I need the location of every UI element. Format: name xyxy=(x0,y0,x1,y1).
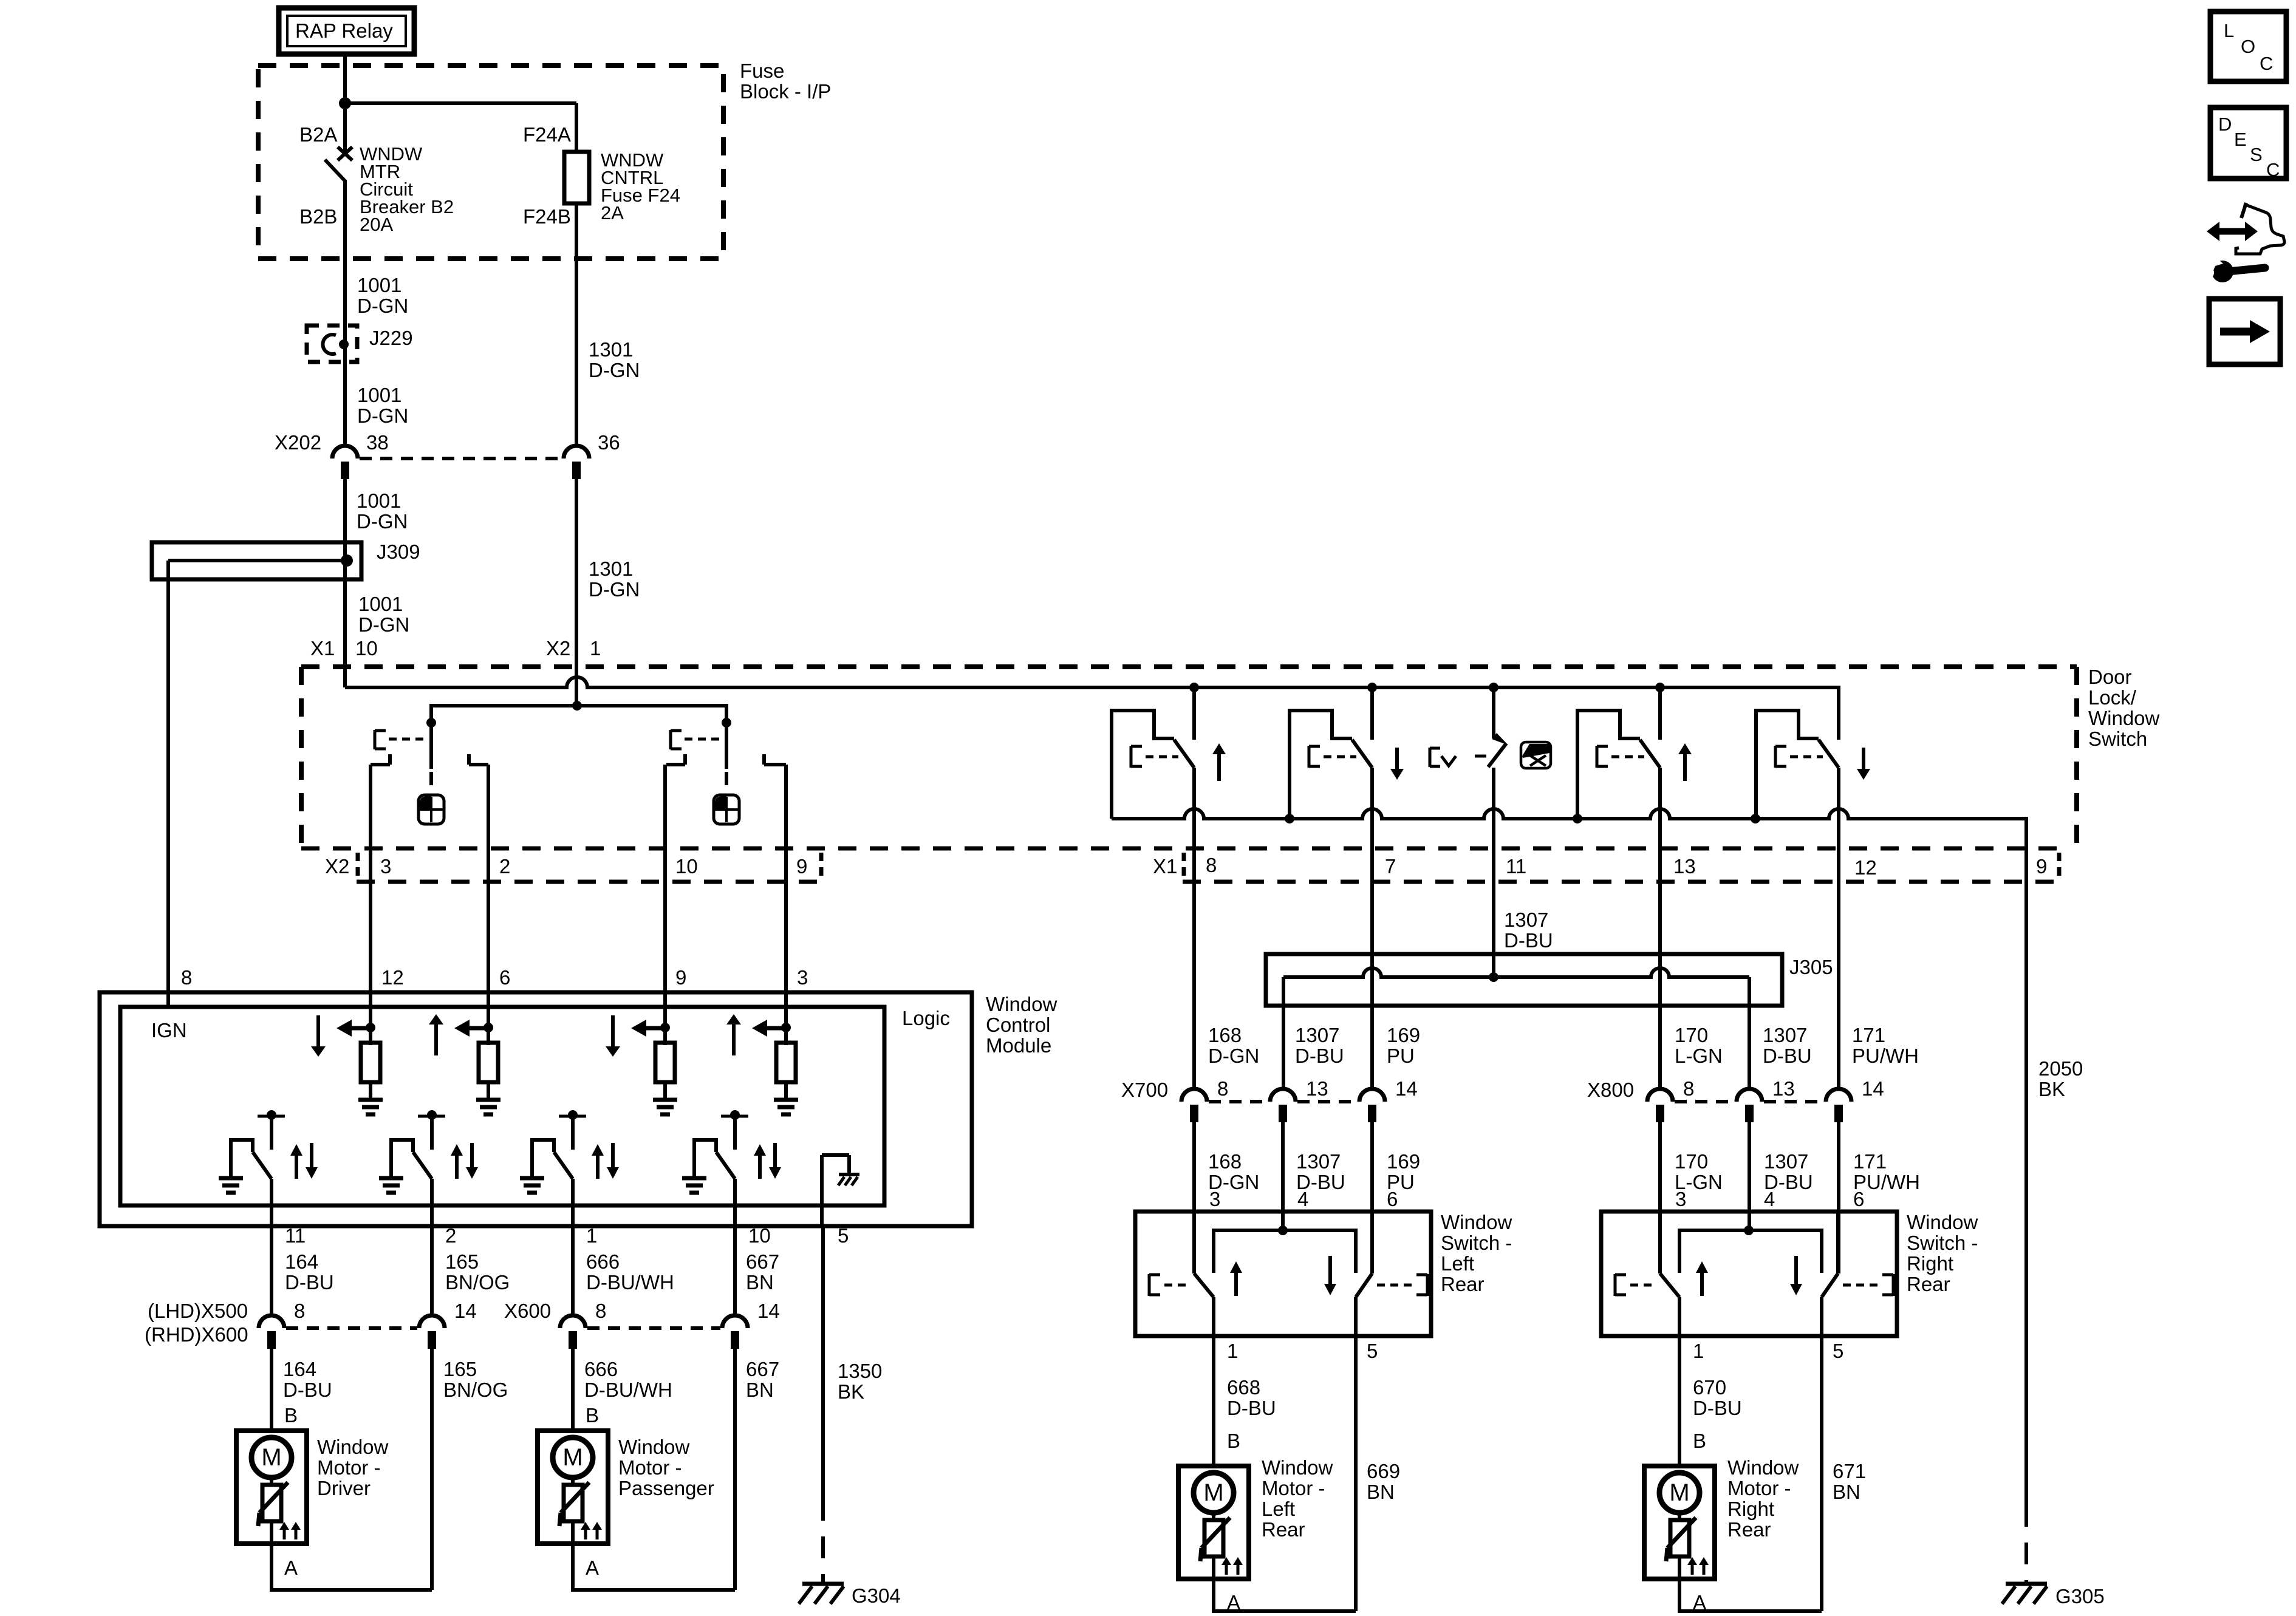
svg-text:1001: 1001 xyxy=(357,384,401,406)
svg-text:D-BU: D-BU xyxy=(1295,1045,1344,1067)
svg-text:14: 14 xyxy=(454,1300,477,1322)
svg-text:M: M xyxy=(562,1444,583,1471)
svg-text:C: C xyxy=(2260,53,2273,74)
svg-text:2A: 2A xyxy=(601,202,624,223)
svg-text:D-BU: D-BU xyxy=(1693,1397,1742,1419)
ground G304 label xyxy=(852,1584,901,1607)
svg-text:D-GN: D-GN xyxy=(358,613,409,636)
svg-text:X202: X202 xyxy=(275,431,321,454)
svg-text:Right: Right xyxy=(1907,1252,1953,1275)
svg-text:1: 1 xyxy=(1693,1340,1704,1362)
window motor right rear label xyxy=(1727,1456,1799,1541)
connector X1 strip labels xyxy=(1153,854,2047,879)
svg-text:Switch -: Switch - xyxy=(1907,1232,1978,1254)
module window channel 4 xyxy=(726,992,798,1114)
svg-text:Window: Window xyxy=(986,993,1057,1015)
svg-text:Motor -: Motor - xyxy=(1727,1477,1791,1499)
connector X700 labels xyxy=(1121,1077,1418,1101)
splice J229 node and hook xyxy=(323,335,349,354)
module output driver up/down xyxy=(219,1110,318,1226)
svg-text:164: 164 xyxy=(285,1250,318,1273)
window switch left front (up) in door lock switch xyxy=(1112,688,1226,849)
svg-text:D: D xyxy=(2218,114,2232,135)
driver passenger switch sub-bus xyxy=(426,701,731,728)
svg-text:9: 9 xyxy=(2036,855,2047,878)
DESC letters xyxy=(2218,114,2280,180)
module top pin labels xyxy=(181,966,808,989)
svg-text:170: 170 xyxy=(1675,1150,1708,1173)
svg-text:D-BU/WH: D-BU/WH xyxy=(586,1271,674,1294)
connector X800 labels xyxy=(1587,1077,1884,1101)
svg-text:Door: Door xyxy=(2088,666,2132,688)
svg-text:171: 171 xyxy=(1852,1024,1885,1046)
svg-text:6: 6 xyxy=(499,966,510,989)
svg-text:5: 5 xyxy=(838,1224,849,1247)
svg-text:G305: G305 xyxy=(2055,1585,2105,1607)
window switch right rear col (up) in door lock switch xyxy=(1577,688,1692,849)
svg-text:B: B xyxy=(1693,1430,1706,1452)
svg-text:Window: Window xyxy=(618,1436,690,1458)
wire 670 D-BU label xyxy=(1693,1376,1742,1452)
svg-text:D-BU: D-BU xyxy=(285,1271,334,1294)
svg-text:Rear: Rear xyxy=(1262,1518,1305,1541)
svg-text:J229: J229 xyxy=(369,327,413,349)
wire feed bus from X1-10 across top of switches xyxy=(345,677,1839,740)
svg-text:14: 14 xyxy=(757,1300,780,1322)
module internal ground pin 5 xyxy=(822,1155,859,1226)
svg-text:171: 171 xyxy=(1853,1150,1887,1173)
window motor driver xyxy=(236,1431,307,1544)
DESC legend box xyxy=(2210,107,2286,179)
svg-text:(LHD)X500: (LHD)X500 xyxy=(148,1300,248,1322)
wires X800 to right rear switch xyxy=(1660,1122,1839,1273)
svg-text:8: 8 xyxy=(1217,1077,1228,1100)
J229 label xyxy=(369,327,413,349)
svg-text:X1: X1 xyxy=(1153,855,1177,878)
svg-text:G304: G304 xyxy=(852,1584,901,1607)
svg-text:D-GN: D-GN xyxy=(589,578,640,601)
svg-text:1001: 1001 xyxy=(358,593,403,615)
right rear motor return loop xyxy=(1679,1579,1822,1611)
svg-text:(RHD)X600: (RHD)X600 xyxy=(145,1323,248,1346)
svg-text:D-BU/WH: D-BU/WH xyxy=(584,1379,672,1401)
splice J229 dashed box xyxy=(307,326,357,362)
svg-text:Window: Window xyxy=(1727,1456,1799,1479)
LOC legend box xyxy=(2210,12,2286,81)
svg-text:1307: 1307 xyxy=(1764,1150,1808,1173)
window switch right col (down) in door lock switch xyxy=(1756,688,1870,849)
wires X700 to left rear switch xyxy=(1194,1122,1372,1273)
J305 label xyxy=(1789,956,1833,978)
window motor passenger label xyxy=(618,1436,714,1499)
svg-text:D-BU: D-BU xyxy=(1504,929,1553,952)
wire 1301 D-GN label upper xyxy=(589,338,640,381)
svg-text:BN/OG: BN/OG xyxy=(445,1271,510,1294)
switch return bus to ground pin 9 xyxy=(1112,809,2026,849)
left rear motor return loop xyxy=(1214,1579,1356,1611)
wire 1001 D-GN label mid xyxy=(357,384,408,427)
svg-text:F24A: F24A xyxy=(523,123,571,146)
ground G305 label xyxy=(2055,1585,2105,1607)
svg-text:BN: BN xyxy=(1367,1481,1395,1503)
wire labels above X500 xyxy=(285,1250,779,1294)
rear switch pin numbers below xyxy=(1227,1340,1843,1362)
window motor left rear label xyxy=(1262,1456,1333,1541)
svg-text:5: 5 xyxy=(1833,1340,1843,1362)
connector X2 strip labels xyxy=(325,855,807,878)
svg-text:9: 9 xyxy=(796,855,807,878)
svg-text:1307: 1307 xyxy=(1296,1150,1341,1173)
wire 169 PU to X700-14 xyxy=(1370,849,1374,1089)
svg-text:667: 667 xyxy=(746,1250,779,1273)
module labels xyxy=(151,993,1057,1057)
wire 671 BN label xyxy=(1833,1460,1866,1503)
svg-text:1307: 1307 xyxy=(1763,1024,1807,1046)
svg-text:14: 14 xyxy=(1862,1077,1884,1100)
svg-text:B: B xyxy=(586,1404,599,1427)
window lockout switch xyxy=(1430,688,1508,849)
window switch left front (down) in door lock switch xyxy=(1290,688,1404,849)
window motor driver label xyxy=(317,1436,389,1499)
connector strip X2 row xyxy=(301,848,2065,882)
svg-text:Lock/: Lock/ xyxy=(2088,686,2137,709)
wire 2050 BK down right side xyxy=(2024,849,2028,1584)
wire 1001 D-GN label below J309 xyxy=(358,593,409,636)
wire 1301 D-GN fuse to X2-1 xyxy=(575,476,578,706)
module window channel 2 xyxy=(429,992,501,1114)
module output channel 2 xyxy=(379,1110,478,1226)
svg-text:1: 1 xyxy=(1227,1340,1238,1362)
wire 1300 BN to module pin 6 xyxy=(487,765,490,992)
connector strip X1 row xyxy=(1183,853,2062,882)
svg-text:Passenger: Passenger xyxy=(618,1477,714,1499)
svg-text:4: 4 xyxy=(1297,1188,1308,1210)
LOC letters xyxy=(2224,20,2273,74)
passenger motor return loop xyxy=(573,1544,735,1590)
svg-text:D-BU: D-BU xyxy=(1763,1045,1812,1067)
svg-text:12: 12 xyxy=(1854,856,1877,879)
svg-text:1307: 1307 xyxy=(1504,909,1548,931)
fuse block I/P dashed outline xyxy=(258,66,723,259)
J309 label xyxy=(377,540,420,563)
svg-text:B2A: B2A xyxy=(299,123,337,146)
driver motor return loop xyxy=(272,1544,432,1590)
svg-text:10: 10 xyxy=(355,637,378,660)
fuse F24 (WNDW CNTRL 2A) xyxy=(564,152,589,445)
connector X1 pin 10 / X2 pin 1 labels xyxy=(310,637,601,660)
arrow legend box xyxy=(2209,299,2280,364)
svg-text:670: 670 xyxy=(1693,1376,1726,1399)
svg-text:1301: 1301 xyxy=(589,557,633,580)
svg-text:Driver: Driver xyxy=(317,1477,371,1499)
svg-text:Switch: Switch xyxy=(2088,728,2147,750)
svg-text:2050: 2050 xyxy=(2038,1057,2083,1080)
ground G305 xyxy=(2002,1584,2047,1604)
window lockout icon xyxy=(1521,742,1551,768)
svg-text:Logic: Logic xyxy=(902,1007,950,1029)
svg-text:D-GN: D-GN xyxy=(357,295,408,317)
svg-text:6: 6 xyxy=(1387,1188,1398,1210)
svg-text:1: 1 xyxy=(586,1224,597,1247)
wire 667 BN xyxy=(733,1226,737,1315)
left rear switch pin labels xyxy=(1209,1188,1398,1210)
svg-text:13: 13 xyxy=(1772,1077,1795,1100)
svg-text:169: 169 xyxy=(1387,1150,1420,1173)
connector X700 xyxy=(1181,1089,1385,1122)
svg-text:RAP Relay: RAP Relay xyxy=(295,19,393,42)
svg-text:E: E xyxy=(2234,129,2247,150)
ground G304 xyxy=(799,1584,844,1604)
svg-text:Rear: Rear xyxy=(1727,1518,1771,1541)
svg-text:13: 13 xyxy=(1306,1077,1328,1100)
svg-text:PU/WH: PU/WH xyxy=(1852,1045,1919,1067)
svg-text:X800: X800 xyxy=(1587,1079,1634,1101)
svg-text:1: 1 xyxy=(590,637,601,660)
svg-text:168: 168 xyxy=(1208,1024,1242,1046)
wire labels above X800 xyxy=(1675,1024,1919,1067)
window control module outer box xyxy=(100,992,972,1226)
splice pack J309 xyxy=(152,542,361,579)
svg-text:8: 8 xyxy=(294,1300,305,1322)
driver window switch (master) xyxy=(371,723,488,824)
svg-text:D-BU: D-BU xyxy=(1227,1397,1276,1419)
wire 1001 D-GN J309 branch to module IGN xyxy=(166,561,170,1007)
svg-text:B: B xyxy=(1227,1430,1240,1452)
svg-text:Fuse: Fuse xyxy=(740,60,784,82)
svg-text:1001: 1001 xyxy=(357,274,401,296)
module window channel 3 xyxy=(606,992,677,1114)
svg-text:7: 7 xyxy=(1385,855,1396,878)
wire labels below X800 xyxy=(1675,1150,1920,1193)
svg-text:IGN: IGN xyxy=(151,1019,187,1042)
svg-text:Motor -: Motor - xyxy=(618,1456,682,1479)
wire labels above X700 xyxy=(1208,1024,1420,1067)
svg-text:165: 165 xyxy=(445,1250,479,1273)
svg-text:J309: J309 xyxy=(377,540,420,563)
svg-text:S: S xyxy=(2250,144,2263,165)
svg-text:12: 12 xyxy=(381,966,404,989)
circuit breaker labels xyxy=(299,123,454,235)
svg-text:36: 36 xyxy=(598,431,620,454)
svg-text:5: 5 xyxy=(1367,1340,1378,1362)
svg-text:X2: X2 xyxy=(325,855,349,878)
door lock window switch label xyxy=(2088,666,2160,750)
RAP Relay box xyxy=(279,8,414,54)
wire labels below X500 xyxy=(283,1358,779,1401)
wire 166 L-BU to module pin 3 xyxy=(784,765,788,992)
svg-text:Motor -: Motor - xyxy=(317,1456,381,1479)
wire labels below X700 xyxy=(1208,1150,1420,1193)
svg-text:3: 3 xyxy=(797,966,808,989)
module window-up driver channel xyxy=(311,992,383,1114)
svg-text:BN/OG: BN/OG xyxy=(443,1379,508,1401)
svg-text:J305: J305 xyxy=(1789,956,1833,978)
svg-text:3: 3 xyxy=(1209,1188,1220,1210)
svg-text:666: 666 xyxy=(586,1250,620,1273)
svg-text:165: 165 xyxy=(443,1358,477,1380)
svg-text:M: M xyxy=(261,1444,281,1471)
passenger window switch (master) xyxy=(666,723,786,824)
svg-text:X2: X2 xyxy=(546,637,570,660)
svg-text:3: 3 xyxy=(380,855,391,878)
connector X202 labels xyxy=(275,431,620,454)
svg-text:Rear: Rear xyxy=(1441,1273,1485,1295)
svg-text:1307: 1307 xyxy=(1295,1024,1339,1046)
svg-text:9: 9 xyxy=(675,966,686,989)
svg-text:C: C xyxy=(2266,159,2280,180)
svg-text:Window: Window xyxy=(1441,1211,1512,1233)
window motor left rear xyxy=(1178,1466,1249,1579)
wire 1301 D-GN label lower xyxy=(589,557,640,601)
wire 1307 D-BU to splice J305 xyxy=(1492,849,1495,977)
svg-text:Motor -: Motor - xyxy=(1262,1477,1325,1499)
wire 1350 BK label xyxy=(838,1360,882,1403)
svg-text:169: 169 xyxy=(1387,1024,1420,1046)
svg-text:D-GN: D-GN xyxy=(357,510,408,533)
wire 668 D-BU label xyxy=(1227,1376,1276,1452)
svg-text:Switch -: Switch - xyxy=(1441,1232,1512,1254)
wire 164 D-BU xyxy=(270,1226,273,1315)
wire 165 BN/OG xyxy=(430,1226,434,1315)
arrow legend arrow xyxy=(2220,320,2270,343)
svg-text:671: 671 xyxy=(1833,1460,1866,1482)
svg-text:M: M xyxy=(1203,1479,1223,1506)
svg-text:10: 10 xyxy=(675,855,698,878)
svg-text:BN: BN xyxy=(746,1271,774,1294)
wire junction to fuse F24 branch xyxy=(345,103,576,152)
svg-text:BN: BN xyxy=(746,1379,774,1401)
svg-text:D-BU: D-BU xyxy=(283,1379,332,1401)
svg-text:BK: BK xyxy=(2038,1078,2065,1100)
svg-text:L: L xyxy=(2224,20,2234,41)
svg-text:Window: Window xyxy=(317,1436,389,1458)
svg-text:1350: 1350 xyxy=(838,1360,882,1382)
wire 1307 D-BU label xyxy=(1504,909,1553,952)
svg-text:2: 2 xyxy=(445,1224,456,1247)
svg-text:38: 38 xyxy=(366,431,389,454)
window switch right rear label xyxy=(1907,1211,1978,1295)
wrench icon xyxy=(2193,256,2265,282)
svg-text:11: 11 xyxy=(285,1224,306,1247)
svg-text:Window: Window xyxy=(2088,707,2160,729)
svg-text:8: 8 xyxy=(181,966,192,989)
svg-text:20A: 20A xyxy=(360,214,393,235)
window control module inner logic box xyxy=(120,1007,884,1205)
wire 171 PU/WH to X800-14 xyxy=(1837,849,1840,1089)
svg-text:Window: Window xyxy=(1907,1211,1978,1233)
svg-text:2: 2 xyxy=(499,855,510,878)
wire 666 D-BU/WH xyxy=(571,1226,575,1315)
wire 1136 GY/BU to module pin 12 xyxy=(369,765,372,992)
connector X202 dashed line xyxy=(360,457,562,460)
svg-text:170: 170 xyxy=(1675,1024,1708,1046)
svg-text:Left: Left xyxy=(1441,1252,1474,1275)
svg-text:8: 8 xyxy=(1683,1077,1694,1100)
svg-text:3: 3 xyxy=(1675,1188,1686,1210)
wire RAP Relay to circuit breaker B2 xyxy=(339,55,351,151)
svg-text:BK: BK xyxy=(838,1380,864,1403)
window switch left rear label xyxy=(1441,1211,1512,1295)
wire 1001 D-GN label below J229 xyxy=(357,489,408,533)
circuit breaker B2 (WNDW MTR 20A) xyxy=(325,147,352,445)
svg-text:667: 667 xyxy=(746,1358,779,1380)
svg-text:X1: X1 xyxy=(310,637,335,660)
svg-text:O: O xyxy=(2241,36,2255,57)
svg-text:BN: BN xyxy=(1833,1481,1860,1503)
svg-text:8: 8 xyxy=(595,1300,606,1322)
svg-text:Rear: Rear xyxy=(1907,1273,1950,1295)
door lock window switch dashed box xyxy=(301,667,2077,848)
window motor right rear xyxy=(1644,1466,1715,1579)
svg-text:A: A xyxy=(284,1556,298,1579)
svg-text:10: 10 xyxy=(748,1224,771,1247)
svg-text:F24B: F24B xyxy=(523,205,571,228)
svg-text:M: M xyxy=(1669,1479,1689,1506)
svg-text:1301: 1301 xyxy=(589,338,633,361)
module output channel 3 xyxy=(520,1110,619,1226)
svg-text:Right: Right xyxy=(1727,1498,1774,1520)
wire 1001 D-GN label upper xyxy=(357,274,408,317)
svg-text:B2B: B2B xyxy=(299,205,337,228)
wire 669 BN label xyxy=(1367,1460,1400,1503)
svg-text:D-GN: D-GN xyxy=(589,359,640,381)
svg-text:Block - I/P: Block - I/P xyxy=(740,80,831,103)
module output channel 4 xyxy=(682,1110,781,1226)
svg-text:13: 13 xyxy=(1673,855,1696,878)
svg-text:PU: PU xyxy=(1387,1045,1415,1067)
wire 1001 D-GN X202 to J229 xyxy=(343,476,347,687)
wire 170 L-GN to X800-8 xyxy=(1658,849,1662,1089)
fuse block label xyxy=(740,60,831,103)
wire 1350 BK xyxy=(821,1226,825,1583)
svg-text:4: 4 xyxy=(1764,1188,1775,1210)
svg-text:6: 6 xyxy=(1853,1188,1864,1210)
right rear switch pin labels xyxy=(1675,1188,1864,1210)
svg-text:X700: X700 xyxy=(1121,1079,1168,1101)
wire 167 GN/BK to module pin 9 xyxy=(663,765,667,992)
wires rear switch to motors xyxy=(1214,1336,1822,1611)
svg-text:168: 168 xyxy=(1208,1150,1242,1173)
svg-text:164: 164 xyxy=(283,1358,316,1380)
rear motor A labels xyxy=(1227,1591,1706,1614)
window switch right rear xyxy=(1601,1212,1897,1336)
fuse F24 labels xyxy=(523,123,680,228)
wires below X500 xyxy=(272,1349,735,1590)
connector X500/X600 arcs xyxy=(259,1315,748,1349)
svg-text:D-GN: D-GN xyxy=(357,404,408,427)
svg-text:14: 14 xyxy=(1395,1077,1418,1100)
module bottom pin labels xyxy=(285,1224,849,1247)
svg-text:Left: Left xyxy=(1262,1498,1295,1520)
svg-text:A: A xyxy=(586,1556,599,1579)
svg-text:D-GN: D-GN xyxy=(1208,1045,1259,1067)
connector X500/X600 labels xyxy=(145,1300,780,1346)
window motor passenger xyxy=(538,1431,608,1544)
svg-text:Window: Window xyxy=(1262,1456,1333,1479)
connector X800 xyxy=(1647,1089,1851,1122)
wire 168 D-GN to X700-8 xyxy=(1192,849,1196,1089)
svg-text:Module: Module xyxy=(986,1034,1051,1057)
svg-text:8: 8 xyxy=(1206,854,1217,876)
window switch left rear xyxy=(1135,1212,1431,1336)
svg-text:1001: 1001 xyxy=(357,489,401,512)
connector X202 pin 38 xyxy=(332,446,358,479)
svg-text:Control: Control xyxy=(986,1014,1050,1036)
motor terminal A labels xyxy=(284,1556,599,1579)
motor terminal B labels xyxy=(284,1404,599,1427)
svg-text:L-GN: L-GN xyxy=(1675,1045,1723,1067)
wire 2050 BK label xyxy=(2038,1057,2083,1100)
